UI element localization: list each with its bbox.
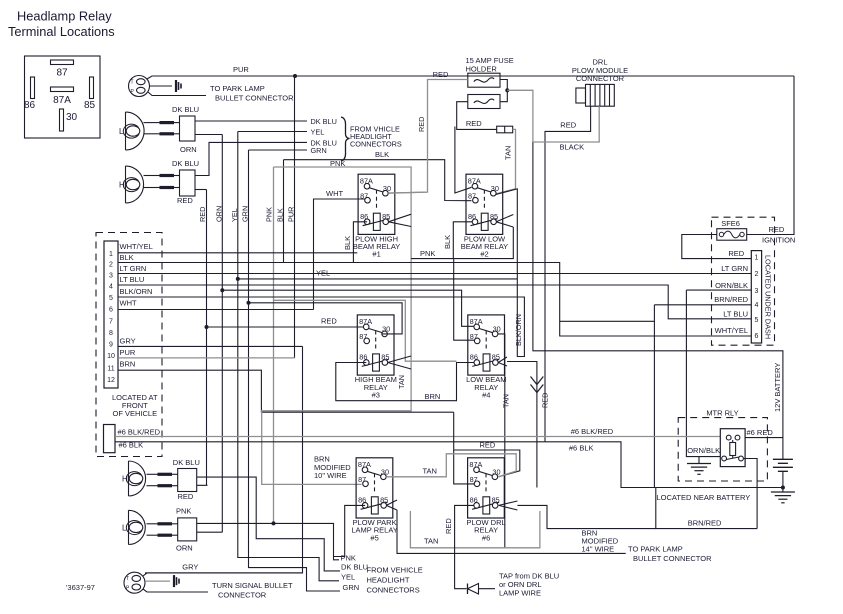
svg-text:CONNECTOR: CONNECTOR [218,591,267,600]
svg-text:LT BLU: LT BLU [120,275,145,284]
lamp H (bottom) [122,461,146,496]
svg-text:#6 BLK/RED: #6 BLK/RED [118,427,161,436]
svg-text:TAN: TAN [397,375,406,389]
motor relay [720,429,745,467]
svg-text:87A: 87A [53,95,71,106]
wire to relay6 87 [454,450,475,484]
svg-text:14" WIRE: 14" WIRE [582,544,615,553]
wire relay3 86 BRN loop to relay4 86 [336,363,474,401]
relay #1 plow high beam [353,174,400,259]
svg-text:RED: RED [321,317,337,326]
wire #6 BLK/RED (gray) to MTR relay [115,436,724,438]
svg-text:RED: RED [177,196,193,205]
svg-text:6: 6 [109,307,113,314]
wire DK BLU from lamp H [195,142,307,175]
svg-text:RED: RED [178,492,194,501]
svg-text:Terminal Locations: Terminal Locations [8,24,115,39]
wire GRY to turn signal [143,573,303,576]
wire BRN/RED pin4 right [654,304,751,306]
wire GRN vertical [249,150,341,591]
svg-text:#2: #2 [480,250,488,259]
relay #2 plow low beam [461,174,508,259]
wire pin10 PUR row (gray) [118,357,295,359]
wire RED row to relay3 87A [205,325,209,329]
svg-text:GRY: GRY [182,563,198,572]
svg-text:TAN: TAN [423,467,437,476]
svg-text:WHT: WHT [326,189,343,198]
svg-text:PNK: PNK [265,207,274,222]
svg-text:ORN: ORN [180,145,197,154]
wire relay6 85 to BRN/RED [499,501,518,505]
svg-text:BULLET CONNECTOR: BULLET CONNECTOR [633,554,712,563]
svg-text:RED: RED [444,518,453,534]
svg-text:HOLDER: HOLDER [466,65,498,74]
wire RED from DRL [545,106,591,442]
wire PNK under relays [411,227,513,259]
wire GRY vertical [145,346,303,573]
wire RED into fuse (gray vertical to relay1-30) [388,80,468,194]
svg-text:CONNECTORS: CONNECTORS [367,586,420,595]
wire relay1 85 fork to PNK [389,214,412,222]
svg-text:11: 11 [107,365,114,372]
svg-text:BLK: BLK [276,208,285,222]
wire PNK (gray) horizontal to relay 1 [262,167,411,484]
wire relay3 85 fork [388,356,411,363]
wire relay4 85 fork to battery chevron line [498,357,507,363]
wire to park lamp bullet connector [150,85,173,87]
svg-text:DK BLU: DK BLU [172,105,199,114]
svg-text:H: H [122,475,128,484]
svg-text:30: 30 [66,112,78,123]
svg-text:5: 5 [109,295,113,302]
svg-text:WHT/YEL: WHT/YEL [715,326,748,335]
wire RED from lamp H bottom [197,484,208,486]
svg-text:GRN: GRN [241,206,250,222]
svg-text:HEADLIGHT: HEADLIGHT [367,575,410,584]
connector DK BLU / ORN (lamp L) [180,116,196,141]
wire pin4 LT BLU row [118,285,751,319]
svg-text:2: 2 [754,271,758,278]
svg-text:H: H [119,181,125,190]
svg-text:6: 6 [754,333,758,340]
wire YEL row to relay4 [236,277,240,281]
svg-text:BLACK: BLACK [560,143,585,152]
wire YEL stub [238,131,307,133]
svg-text:IGNITION: IGNITION [762,236,795,245]
wire TAN relay5-30 to relay6-30 (gray) [386,454,516,477]
svg-text:TAN: TAN [424,537,438,546]
svg-text:FROM VEHICLE: FROM VEHICLE [367,566,423,575]
bullet connector stub (bottom, gray) [145,580,170,582]
wire DK BLU from lamp L [174,122,180,124]
svg-text:LT GRN: LT GRN [120,264,147,273]
wire gray TAN row to relay4 86 [274,300,457,361]
wire pin1 WHT/YEL row [118,252,357,254]
wire fuse 2 left loop [457,102,497,130]
6-pin under-dash connector [751,251,761,343]
wire pin3 LT GRN row [118,273,751,275]
svg-text:WHT: WHT [120,298,137,307]
svg-text:RED: RED [769,225,785,234]
wire to relay2 87A [455,127,472,194]
svg-text:MTR RLY: MTR RLY [706,409,738,418]
wire pin5 BLK/ORN row [118,296,232,298]
wire GRN stub [249,149,308,151]
MTR RLY dashed box [678,418,767,481]
wire #6 BLK [115,442,783,488]
ground at MTR relay [698,457,700,464]
svg-text:3: 3 [754,288,758,295]
svg-text:#5: #5 [370,533,378,542]
svg-text:PUR: PUR [287,207,296,222]
svg-text:YEL: YEL [341,573,355,582]
svg-text:'3637-97: '3637-97 [66,583,95,592]
wire TAN bottom (gray) [410,511,540,548]
wire ORN/BLK down to MTR relay [686,289,751,291]
svg-text:12: 12 [107,377,115,384]
svg-text:WHT/YEL: WHT/YEL [120,242,153,251]
turn signal lamp (top) [129,76,150,97]
lamp L (bottom) [122,510,145,544]
svg-text:YEL: YEL [230,208,239,222]
wire PUR to SFE6, SFE6 to pin1 [747,76,794,235]
svg-text:BLK: BLK [120,253,134,262]
svg-text:SFE6: SFE6 [721,219,740,228]
svg-text:YEL: YEL [311,128,325,137]
svg-text:RED: RED [540,393,549,408]
svg-text:ORN/BLK: ORN/BLK [715,281,748,290]
brace from vehicle headlight connectors (top) [341,117,350,161]
svg-text:2: 2 [109,262,113,269]
svg-text:TO PARK LAMP: TO PARK LAMP [210,84,265,93]
wire relay1 30 to RED [388,192,426,193]
svg-text:RED: RED [728,249,744,258]
wire pin9 GRY row [118,345,303,347]
svg-text:LT GRN: LT GRN [721,264,748,273]
wire PUR vertical [294,76,296,358]
wire gray from fuse junction [507,90,533,142]
svg-text:RED: RED [560,120,576,129]
relay terminal-location diagram [24,56,100,138]
turn signal lamp (bottom) [124,572,145,593]
wire BLK vertical [283,160,285,263]
wire PUR top [147,76,794,79]
svg-text:LT BLU: LT BLU [723,310,748,319]
svg-text:#6 BLK: #6 BLK [569,443,594,452]
svg-text:5: 5 [754,317,758,324]
svg-text:85: 85 [84,100,96,111]
svg-text:GRY: GRY [120,337,136,346]
svg-text:8: 8 [109,330,113,337]
wire relay2-86 BLK down to relay4 87 [454,259,475,341]
svg-text:GRN: GRN [343,583,360,592]
svg-text:BLK/ORN: BLK/ORN [120,287,153,296]
wire BLK horizontal [284,160,472,201]
wire BRN to relay6 [454,412,520,477]
svg-text:DK BLU: DK BLU [172,159,199,168]
svg-text:GRN: GRN [311,146,327,155]
connector DK BLU / RED (lamp H) [180,170,196,196]
svg-text:DK BLU: DK BLU [311,117,337,126]
svg-text:RED: RED [466,119,482,128]
wire ORN from lamp L [195,134,222,136]
connector PNK / ORN (lamp L bottom) [178,518,197,541]
wire relay5 86 to PNK [334,505,366,556]
svg-text:7: 7 [109,318,113,325]
svg-text:T: T [126,576,129,582]
svg-text:CONNECTORS: CONNECTORS [350,140,402,149]
svg-text:LOCATED UNDER DASH: LOCATED UNDER DASH [764,255,773,339]
wire #6 RED to battery [745,437,783,439]
svg-text:#1: #1 [372,250,380,259]
wire relay1 86 BLK down [353,222,367,263]
svg-text:YEL: YEL [316,269,330,278]
svg-text:ORN: ORN [214,206,223,222]
svg-text:PUR: PUR [120,348,136,357]
connector DK BLU / RED (lamp H bottom) [178,469,197,492]
#6 connector at front [104,425,116,453]
svg-text:TO PARK LAMP: TO PARK LAMP [628,545,683,554]
wire DK BLU from lamp H bottom [197,477,340,571]
wire park lamp stub [148,92,206,96]
node PUR junction [293,74,297,78]
inline fuse [497,126,513,133]
wire YEL vertical [238,132,339,581]
svg-text:RED: RED [433,70,449,79]
ground at battery [782,488,784,493]
svg-text:BRN/RED: BRN/RED [714,295,748,304]
svg-text:#4: #4 [482,390,490,399]
wire RED from lamp H [195,189,207,191]
svg-text:ORN: ORN [176,543,193,552]
wire pin2 BLK row [118,263,751,337]
svg-text:LOCATED NEAR BATTERY: LOCATED NEAR BATTERY [657,493,751,502]
svg-text:BULLET CONNECTOR: BULLET CONNECTOR [215,94,294,103]
svg-text:L: L [119,127,124,136]
svg-text:10: 10 [107,353,115,360]
svg-text:L: L [122,523,127,532]
relay #6 plow DRL [467,458,506,543]
svg-text:ORN/BLK: ORN/BLK [687,446,720,455]
svg-text:TAN: TAN [501,394,510,408]
dashed box located under dash [712,217,775,345]
wire PNK from lamp L bottom [197,523,339,559]
svg-text:3: 3 [109,273,113,280]
relay #4 low beam [466,315,506,400]
svg-text:BLK: BLK [443,235,452,249]
wire BLACK from DRL [533,106,599,142]
svg-text:BRN/RED: BRN/RED [688,518,722,527]
svg-text:#6: #6 [482,533,490,542]
svg-text:BLK/ORN: BLK/ORN [514,314,523,346]
svg-text:#6 RED: #6 RED [747,428,774,437]
lamp H (top) [119,166,144,203]
12-pin vehicle connector (dashed area) [96,233,162,457]
svg-text:RED: RED [417,117,426,132]
wire WHT vertical [314,199,368,310]
svg-text:DK BLU: DK BLU [341,562,368,571]
wire TAN (gray) to relay2-30 [496,129,516,194]
wire relay4 30 TAN down [498,334,505,548]
svg-text:1: 1 [109,251,113,258]
svg-text:86: 86 [24,100,36,111]
wire GRN row to relay3 30 [247,301,251,305]
svg-text:RED: RED [198,207,207,222]
wire relay2 85 fork [496,215,513,222]
svg-text:#3: #3 [372,390,380,399]
svg-text:TURN SIGNAL BULLET: TURN SIGNAL BULLET [212,581,293,590]
svg-text:4: 4 [109,284,113,291]
diode TAP [467,584,469,595]
svg-text:T: T [131,80,134,86]
wire turn signal bottom [143,589,208,592]
wire ORN row to relay4 87A [220,288,224,292]
svg-text:BRN: BRN [120,360,136,369]
svg-text:DK BLU: DK BLU [173,458,200,467]
svg-text:12V BATTERY: 12V BATTERY [773,363,782,412]
svg-text:#6 BLK/RED: #6 BLK/RED [571,427,614,436]
svg-text:PNK: PNK [330,159,345,168]
svg-text:9: 9 [109,342,113,349]
svg-text:PNK: PNK [341,553,356,562]
wire RED vertical [206,190,208,486]
wire BRN vertical [118,370,454,412]
relay #3 high beam [355,315,397,400]
wire pin6 WHT row [118,309,314,311]
wire ORN vertical [221,135,223,533]
wire PNK vertical (gray) [273,167,275,523]
wire relay5 85 to park lamp [386,500,397,505]
svg-text:4: 4 [754,302,758,309]
svg-text:TAN: TAN [504,146,513,160]
wire relay6 86 RED down to diode [455,505,475,588]
svg-text:BLK: BLK [343,236,352,250]
svg-text:BRN: BRN [425,392,441,401]
chevrons battery feed [531,377,544,393]
wire fuse right side [500,80,507,102]
wire ORN from lamp L bottom [197,531,223,533]
svg-text:OF VEHICLE: OF VEHICLE [113,409,158,418]
svg-text:PUR: PUR [233,65,249,74]
svg-text:10" WIRE: 10" WIRE [314,471,347,480]
wire MTR relay to BRN/RED [743,459,757,529]
wire relay2 86 BLK [453,222,472,259]
svg-text:PNK: PNK [176,507,191,516]
svg-text:87: 87 [56,68,68,79]
svg-text:LAMP WIRE: LAMP WIRE [499,589,541,598]
svg-text:CONNECTOR: CONNECTOR [576,74,625,83]
svg-text:BLK: BLK [375,150,389,159]
svg-text:RED: RED [480,441,496,450]
lamp L (top) [119,112,144,150]
relay #5 plow park lamp [351,458,397,543]
svg-text:1: 1 [754,255,758,262]
located near battery box [656,488,757,529]
svg-text:Headlamp Relay: Headlamp Relay [17,9,112,24]
wire TAN from relay2 30 down (U) [230,189,524,357]
svg-text:PNK: PNK [420,249,435,258]
